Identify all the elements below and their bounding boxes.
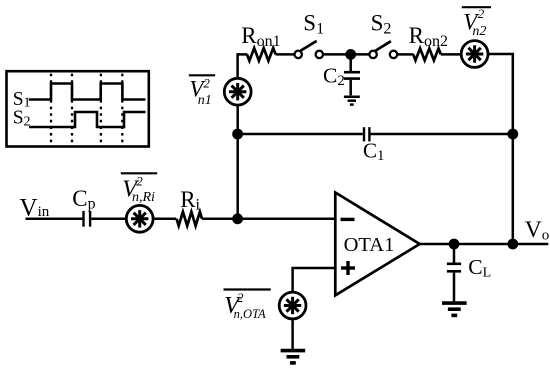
label Vn,OTA (overline) xyxy=(224,288,271,290)
svg-text:2: 2 xyxy=(203,76,210,91)
svg-text:Ri: Ri xyxy=(180,187,200,214)
wire CL to ground xyxy=(453,273,456,302)
capacitor C2 xyxy=(344,72,360,78)
svg-text:OTA1: OTA1 xyxy=(344,234,395,256)
noise source Vn1 xyxy=(224,78,251,105)
svg-text:CL: CL xyxy=(468,255,491,280)
junction node output right xyxy=(507,239,518,250)
svg-text:S1: S1 xyxy=(303,11,324,38)
label Vn2 (overline) xyxy=(462,6,491,8)
wire Cp to Vn,Ri xyxy=(91,218,126,221)
svg-text:n,OTA: n,OTA xyxy=(234,307,266,321)
svg-text:n2: n2 xyxy=(472,24,486,39)
svg-text:S2: S2 xyxy=(371,11,392,38)
switch S2 xyxy=(369,41,397,58)
svg-text:Ron1: Ron1 xyxy=(241,23,280,50)
svg-text:C1: C1 xyxy=(363,139,385,164)
junction node CL tap xyxy=(449,239,460,250)
wire S2 to Ron2 xyxy=(398,53,414,56)
ground (CL) xyxy=(442,303,467,315)
svg-text:Vo: Vo xyxy=(525,217,549,244)
svg-text:2: 2 xyxy=(237,290,244,305)
wire Ri to OTA minus xyxy=(202,218,335,221)
clock inset box xyxy=(7,71,149,146)
wire Vin to Cp xyxy=(26,218,83,221)
wire Ron2 to Vn2 xyxy=(441,53,462,56)
svg-text:n1: n1 xyxy=(198,93,212,108)
ground (Vn,OTA) xyxy=(281,351,306,363)
wire S1 to node xyxy=(323,53,350,56)
svg-text:S2: S2 xyxy=(13,108,31,130)
wire Ron1 to S1 xyxy=(276,53,295,56)
noise source Vn,OTA xyxy=(279,292,306,319)
svg-text:2: 2 xyxy=(478,6,485,21)
clock waveform S1 xyxy=(29,84,146,100)
wire mid right segment xyxy=(371,133,513,136)
wire top corner to Ron1 xyxy=(238,53,248,56)
wire left vertical upper xyxy=(236,53,239,78)
resistor Ron2 xyxy=(413,48,441,60)
dashed timing line 3 xyxy=(100,74,102,144)
svg-text:2: 2 xyxy=(136,173,143,188)
noise source Vn2 xyxy=(461,41,488,68)
junction node input xyxy=(232,213,243,224)
label Vn,Ri (overline) xyxy=(121,172,157,174)
resistor Ron1 xyxy=(247,48,276,61)
dashed timing line 1 xyxy=(50,74,52,144)
junction node right mid xyxy=(507,129,518,140)
resistor Ri xyxy=(177,212,202,226)
noise source Vn,Ri xyxy=(126,205,153,232)
op-amp OTA1 xyxy=(335,193,419,296)
wire node to S2 xyxy=(351,53,370,56)
junction node top C2 tap xyxy=(345,49,356,60)
ground (C2) xyxy=(344,97,360,105)
wire OTA output xyxy=(420,243,549,246)
label Vn1 (overline) xyxy=(189,74,215,76)
capacitor CL xyxy=(447,264,461,272)
svg-text:Vin: Vin xyxy=(20,194,50,221)
wire mid left segment xyxy=(238,133,363,136)
wire C2 to ground xyxy=(349,80,352,96)
svg-text:Cp: Cp xyxy=(72,186,95,213)
switch S1 xyxy=(295,41,323,58)
svg-text:C2: C2 xyxy=(323,63,345,89)
wire plus input xyxy=(293,268,336,292)
wire Vn,OTA to ground xyxy=(291,319,294,349)
wire left vertical lower xyxy=(236,105,239,219)
capacitor Cp xyxy=(84,211,91,227)
wire top right corner xyxy=(488,54,513,244)
wire node to C2 xyxy=(349,54,352,71)
wire Vn,Ri to Ri xyxy=(153,218,176,221)
wire node to CL xyxy=(453,244,456,263)
capacitor C1 xyxy=(364,127,369,141)
svg-text:Ron2: Ron2 xyxy=(409,23,448,50)
clock waveform S2 xyxy=(29,112,146,127)
dashed timing line 2 xyxy=(71,74,73,144)
junction node left mid xyxy=(232,129,243,140)
dashed timing line 4 xyxy=(121,74,123,144)
svg-text:n,Ri: n,Ri xyxy=(132,190,155,205)
